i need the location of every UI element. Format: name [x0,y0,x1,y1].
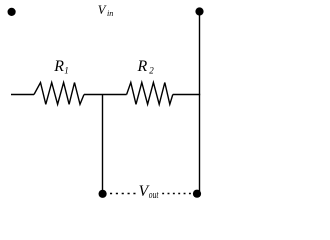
wire right vertical (Vin rail down to output node) [199,12,201,192]
dashed measurement line left of Vout label [110,193,136,195]
svg-text:Vout: Vout [139,183,160,201]
wire between R1 and R2 [84,94,127,96]
wire junction vertical (between R1 and R2 down to Vout node) [102,95,104,194]
svg-text:Vin: Vin [98,3,114,18]
node dot bottom-right (Vout right terminal) [193,190,201,198]
dashed measurement line right of Vout label [162,193,191,195]
wire left lead of R1 [11,94,34,96]
svg-text:R2: R2 [137,58,155,76]
resistor R2 [127,83,173,105]
node dot top-right [195,7,203,15]
svg-text:R1: R1 [53,58,68,76]
resistor R1 [34,83,84,105]
node dot top-left (input terminal) [8,8,16,16]
wire right lead of R2 to right rail [173,94,200,96]
node dot bottom-left (Vout left terminal) [99,190,107,198]
